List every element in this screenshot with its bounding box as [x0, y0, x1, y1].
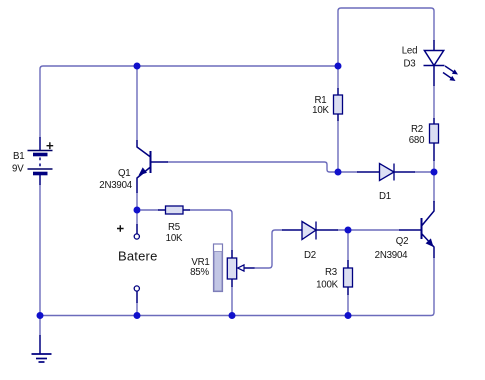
svg-text:2N3904: 2N3904	[99, 180, 133, 191]
svg-text:Batere: Batere	[118, 249, 158, 264]
svg-text:85%: 85%	[190, 267, 209, 278]
svg-text:R3: R3	[325, 267, 337, 278]
svg-text:Q1: Q1	[118, 168, 131, 179]
svg-text:100K: 100K	[316, 280, 339, 291]
svg-text:D3: D3	[404, 59, 416, 70]
svg-text:R2: R2	[411, 124, 423, 135]
svg-text:9V: 9V	[12, 164, 24, 175]
svg-text:R5: R5	[168, 222, 180, 233]
svg-text:2N3904: 2N3904	[375, 250, 409, 261]
svg-text:10K: 10K	[312, 105, 329, 116]
svg-text:Q2: Q2	[396, 236, 409, 247]
svg-text:Led: Led	[402, 46, 418, 57]
svg-text:D1: D1	[379, 191, 391, 202]
svg-text:D2: D2	[304, 250, 316, 261]
svg-text:680: 680	[409, 135, 425, 146]
svg-text:10K: 10K	[166, 233, 183, 244]
svg-text:B1: B1	[13, 151, 24, 162]
